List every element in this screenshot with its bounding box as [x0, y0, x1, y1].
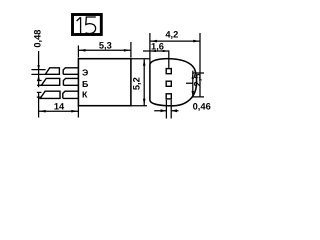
lead 2 (base) tip stub: [37, 81, 42, 86]
arrowheads 14 dimension: [39, 110, 46, 113]
svg-text:5,2: 5,2: [131, 77, 141, 90]
arrowheads 4,2 dimension: [150, 40, 157, 43]
dimension 5,3 extension lines: [78, 42, 130, 58]
arrowheads 0,46 dimension (outside): [161, 109, 166, 112]
arrowheads 1,6 dimension: [150, 50, 156, 52]
lead 3 inner section to body: [63, 91, 79, 98]
arrowheads 5,2 dimension: [143, 59, 146, 65]
svg-text:Б: Б: [82, 79, 89, 89]
case outline: oval with left flat (front view): [150, 59, 197, 106]
svg-text:Э: Э: [82, 68, 88, 78]
dimension 1,6 line: [143, 50, 169, 52]
digit 5 of 15: [86, 17, 96, 34]
dimension 4,2 line: [150, 40, 200, 42]
digit 1 of 15: [77, 17, 81, 34]
extension line right of case (for 4,2): [199, 33, 201, 98]
body outline (side view rectangle): [78, 59, 130, 106]
svg-text:14: 14: [54, 101, 65, 111]
svg-text:5,3: 5,3: [99, 40, 112, 50]
arrowheads 0,48 dimension: [37, 65, 40, 69]
lead 1 inner section to body: [63, 68, 78, 75]
lead 3 (collector) tip stub: [37, 92, 42, 97]
pin 3 square: [166, 94, 171, 99]
svg-text:К: К: [82, 89, 88, 99]
dimension 0,46 extension lines from pin 3: [166, 100, 171, 119]
dimension 14 right extension (body edge extended): [77, 106, 79, 118]
svg-text:4,2: 4,2: [165, 29, 178, 39]
lead 1 (emitter) tip lines: [31, 70, 45, 75]
lead 1 flattened section (trapezoid): [45, 68, 59, 75]
figure number box 15: [73, 15, 102, 35]
bottom shared extension line to right view: [131, 105, 147, 107]
extension line above left flat (for 4,2 and 1,6): [149, 33, 151, 64]
pin 1 square: [166, 69, 171, 74]
lead 2 inner section to body: [63, 78, 78, 85]
lead 3 flattened section (trapezoid): [40, 91, 60, 98]
dimension 5,2 line (between views): [143, 59, 145, 106]
dimension 2,5 line: [192, 71, 194, 98]
dimension 14 line: [39, 110, 79, 112]
top shared extension line to right view: [131, 58, 150, 60]
arrowheads 2,5 dimension: [192, 74, 195, 79]
svg-text:2,5: 2,5: [192, 74, 202, 87]
pin 2 square: [166, 81, 171, 86]
dimension 5,3 line: [78, 49, 130, 51]
dimension 0,48 vertical line: [38, 51, 40, 118]
svg-text:1,6: 1,6: [151, 41, 164, 51]
dimension 0,46 line tails: [154, 110, 178, 112]
svg-text:0,48: 0,48: [32, 30, 42, 48]
extension from pin column up (1,6 right ext): [168, 51, 170, 68]
lead 2 flattened section (trapezoid): [41, 78, 59, 85]
arrowheads 5,3 dimension: [79, 49, 86, 52]
svg-text:0,46: 0,46: [193, 101, 211, 111]
2,5 extension ticks: [186, 73, 204, 97]
